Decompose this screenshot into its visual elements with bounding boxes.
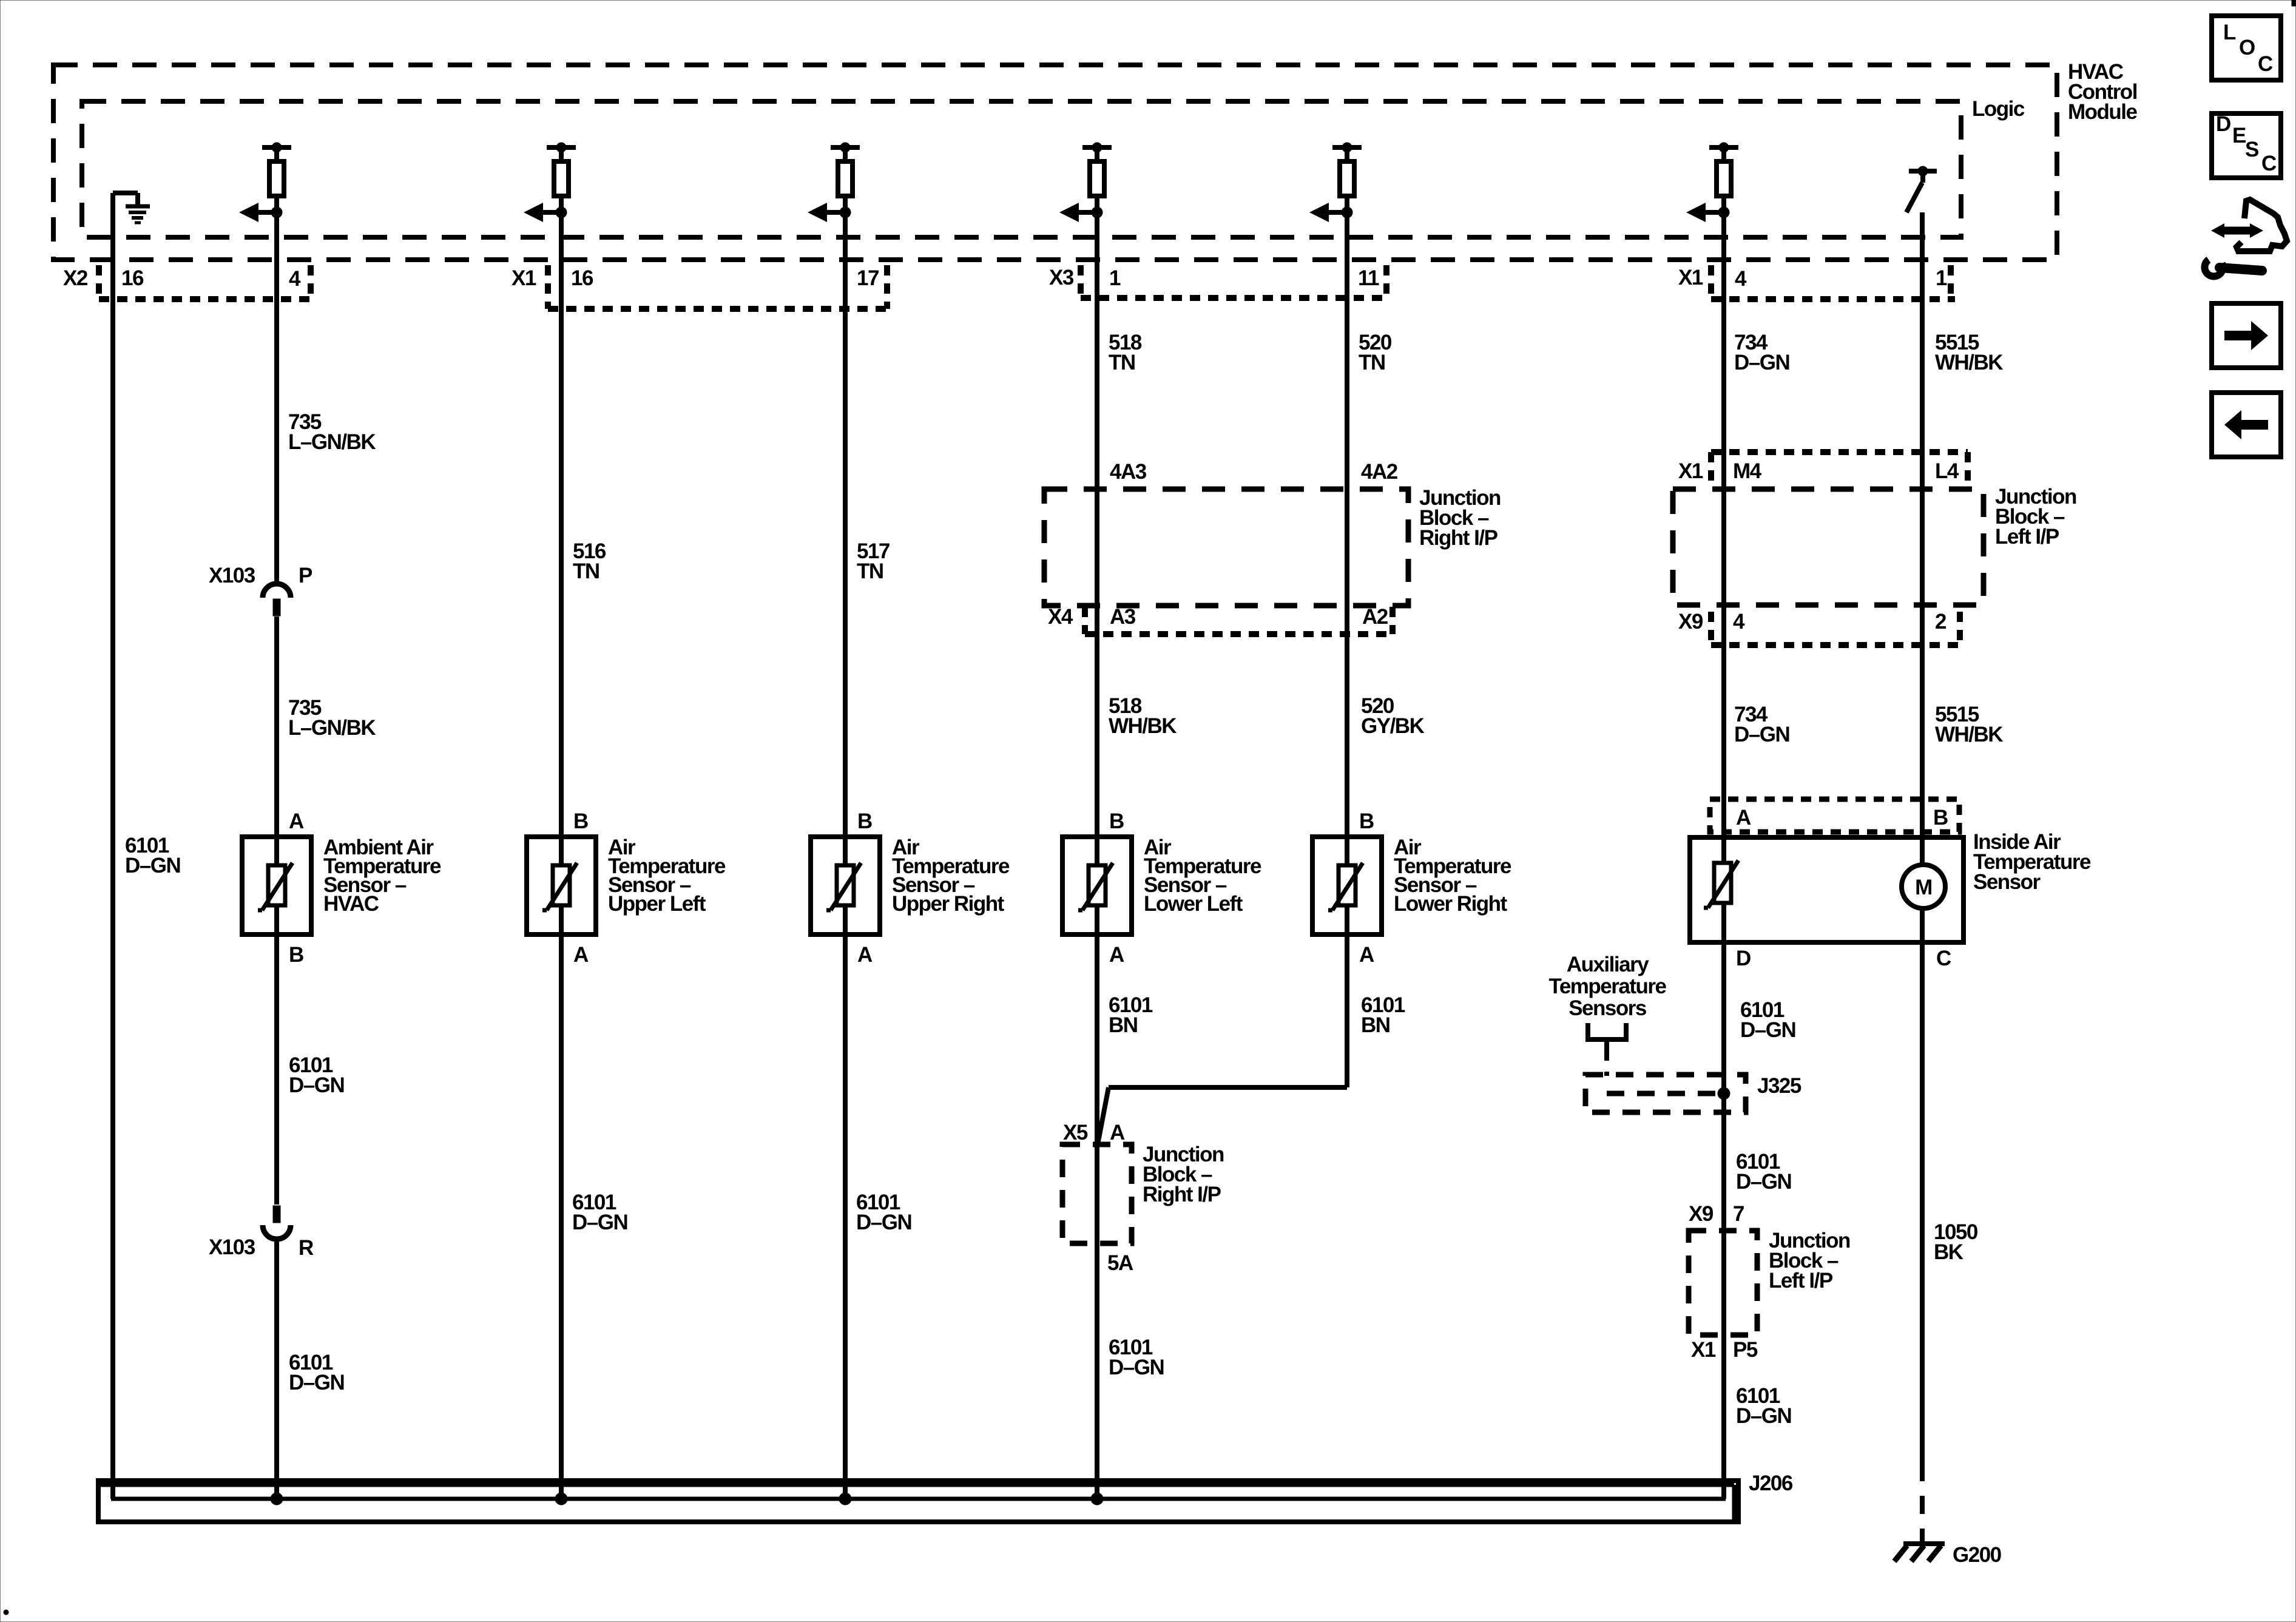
- svg-text:X9: X9: [1678, 610, 1703, 634]
- svg-text:D–GN: D–GN: [1736, 1170, 1791, 1194]
- svg-text:16: 16: [121, 266, 144, 290]
- svg-text:L4: L4: [1935, 459, 1959, 483]
- svg-text:4: 4: [1733, 610, 1745, 634]
- svg-text:X9: X9: [1689, 1202, 1714, 1226]
- svg-text:X4: X4: [1048, 605, 1073, 629]
- junction block left I/P (X9) box: [1689, 1231, 1757, 1335]
- svg-text:X1: X1: [1678, 266, 1703, 289]
- sidebar icon DESC: [2212, 113, 2281, 178]
- switch (module internal, col8): [1909, 169, 1937, 174]
- svg-text:E: E: [2232, 124, 2246, 147]
- svg-text:D–GN: D–GN: [856, 1211, 911, 1234]
- svg-text:D–GN: D–GN: [1734, 723, 1789, 746]
- svg-text:O: O: [2239, 36, 2255, 59]
- sidebar icon forward arrow: [2212, 303, 2281, 368]
- svg-text:X1: X1: [1691, 1338, 1716, 1362]
- svg-text:L–GN/BK: L–GN/BK: [288, 430, 376, 454]
- svg-text:TN: TN: [1109, 351, 1135, 374]
- svg-text:Logic: Logic: [1972, 97, 2025, 121]
- svg-text:7: 7: [1733, 1202, 1744, 1226]
- svg-text:D–GN: D–GN: [572, 1211, 627, 1234]
- junction block left I/P box: [1673, 489, 1984, 605]
- svg-text:Temperature: Temperature: [1549, 975, 1667, 998]
- svg-text:1: 1: [1936, 266, 1947, 290]
- svg-text:A: A: [1109, 943, 1124, 967]
- svg-text:Upper Right: Upper Right: [892, 892, 1005, 916]
- svg-text:X103: X103: [209, 1235, 255, 1259]
- svg-text:C: C: [2258, 52, 2273, 76]
- resistor R3 (module internal): [831, 145, 860, 150]
- page artifact top right: [2292, 0, 2296, 6]
- svg-text:D–GN: D–GN: [1109, 1356, 1164, 1379]
- connector X103 R: [273, 1206, 280, 1223]
- junction dot col4: [839, 1493, 851, 1505]
- svg-text:A: A: [289, 809, 304, 833]
- svg-text:A: A: [857, 943, 873, 967]
- sidebar icon LOC: [2212, 16, 2281, 80]
- wire: dashed 1050 BK to ground: [1920, 1463, 1925, 1544]
- svg-text:11: 11: [1358, 266, 1379, 290]
- wire: circuit 516 / 6101 col3: [559, 212, 564, 1499]
- svg-text:A2: A2: [1362, 605, 1388, 629]
- svg-text:TN: TN: [1359, 351, 1385, 374]
- svg-text:S: S: [2245, 138, 2258, 161]
- svg-text:Right I/P: Right I/P: [1143, 1183, 1221, 1206]
- wire: col6 to col5 joining elbow: [1109, 1085, 1347, 1090]
- signal arrow col5: [1092, 207, 1102, 218]
- svg-text:B: B: [857, 809, 872, 833]
- svg-text:X5: X5: [1063, 1121, 1088, 1144]
- signal arrow col3: [556, 207, 567, 218]
- svg-text:A: A: [1736, 806, 1751, 830]
- splice J325 box: [1585, 1075, 1746, 1112]
- svg-text:2: 2: [1935, 610, 1947, 634]
- svg-text:Lower Left: Lower Left: [1144, 892, 1243, 916]
- wire: circuit 517 / 6101 col4: [843, 212, 848, 1499]
- junction block right I/P (X5) box: [1062, 1144, 1132, 1243]
- svg-text:A3: A3: [1110, 605, 1136, 629]
- svg-text:D–GN: D–GN: [125, 854, 180, 877]
- svg-text:Left I/P: Left I/P: [1995, 525, 2059, 549]
- svg-text:BK: BK: [1934, 1240, 1963, 1264]
- svg-text:Right I/P: Right I/P: [1419, 526, 1498, 550]
- svg-text:HVAC: HVAC: [323, 892, 379, 916]
- svg-text:Module: Module: [2068, 100, 2138, 124]
- svg-text:WH/BK: WH/BK: [1109, 714, 1177, 738]
- svg-text:P5: P5: [1733, 1338, 1758, 1362]
- svg-text:Upper Left: Upper Left: [608, 892, 706, 916]
- svg-text:X3: X3: [1049, 266, 1074, 289]
- svg-text:L: L: [2223, 21, 2236, 44]
- svg-text:Auxiliary: Auxiliary: [1567, 953, 1649, 976]
- connector X1 pin M4: [1711, 449, 1968, 455]
- inside air temperature sensor: [1710, 799, 1959, 832]
- svg-text:5A: 5A: [1107, 1251, 1133, 1275]
- svg-text:C: C: [2261, 152, 2277, 175]
- svg-text:17: 17: [857, 266, 879, 290]
- page artifact bottom left: [4, 1610, 8, 1615]
- svg-text:GY/BK: GY/BK: [1361, 714, 1425, 738]
- svg-text:4A3: 4A3: [1110, 460, 1147, 484]
- svg-text:Left I/P: Left I/P: [1769, 1269, 1833, 1293]
- wire: circuit 520 / 6101 col6: [1345, 212, 1349, 1087]
- wire: circuit 735 / 6101 col2: [274, 212, 279, 583]
- signal arrow col4: [840, 207, 851, 218]
- svg-text:X1: X1: [512, 266, 536, 290]
- svg-text:A: A: [573, 943, 589, 967]
- svg-text:1: 1: [1109, 266, 1121, 290]
- svg-text:X2: X2: [63, 266, 88, 290]
- junction dot col5: [1091, 1493, 1103, 1505]
- svg-text:B: B: [1359, 809, 1374, 833]
- Logic box: [82, 101, 1961, 237]
- resistor R1 (module internal): [262, 145, 291, 150]
- svg-text:4: 4: [1735, 267, 1747, 291]
- wire: ground circuit 6101 col1: [110, 193, 115, 1499]
- svg-text:WH/BK: WH/BK: [1935, 351, 2003, 374]
- ground (HVAC module internal): [113, 191, 138, 195]
- svg-text:A: A: [1359, 943, 1374, 967]
- svg-text:P: P: [299, 564, 312, 587]
- svg-text:R: R: [299, 1236, 314, 1260]
- svg-text:16: 16: [571, 266, 593, 290]
- resistor R2 (module internal): [547, 145, 576, 150]
- splice pack J206: [98, 1481, 1738, 1522]
- svg-text:Sensors: Sensors: [1568, 996, 1647, 1020]
- svg-text:J206: J206: [1749, 1472, 1793, 1495]
- junction dot col2: [271, 1493, 283, 1505]
- svg-text:X1: X1: [1678, 459, 1703, 483]
- resistor R5 (module internal): [1332, 145, 1362, 150]
- svg-text:D–GN: D–GN: [289, 1371, 344, 1394]
- signal arrow col2: [271, 207, 282, 218]
- ground G200: [1903, 1541, 1945, 1546]
- motor M (aspirator): [1902, 865, 1945, 908]
- svg-text:B: B: [1933, 806, 1948, 830]
- signal arrow col7: [1718, 207, 1729, 218]
- svg-text:WH/BK: WH/BK: [1935, 723, 2003, 746]
- svg-text:TN: TN: [573, 559, 599, 583]
- HVAC Control Module outline: [53, 65, 2057, 260]
- svg-text:L–GN/BK: L–GN/BK: [288, 716, 376, 740]
- svg-text:J325: J325: [1757, 1074, 1801, 1098]
- auxiliary dashed lead: [1604, 1046, 1609, 1076]
- svg-text:D–GN: D–GN: [1740, 1018, 1795, 1042]
- wire: circuit 5515 / 1050 col8: [1920, 212, 1925, 1463]
- wire: circuit 734 / 6101 col7: [1721, 212, 1726, 1499]
- svg-text:4: 4: [289, 267, 301, 291]
- svg-text:TN: TN: [857, 559, 883, 583]
- svg-text:D: D: [1736, 947, 1751, 970]
- svg-text:D–GN: D–GN: [1734, 351, 1789, 374]
- auxiliary temperature sensors bracket: [1588, 1023, 1626, 1039]
- svg-text:B: B: [289, 943, 303, 967]
- svg-text:D–GN: D–GN: [1736, 1404, 1791, 1428]
- svg-text:X103: X103: [209, 564, 255, 587]
- svg-text:B: B: [573, 809, 588, 833]
- svg-text:BN: BN: [1361, 1013, 1390, 1037]
- splice J325 dot: [1718, 1087, 1730, 1100]
- svg-text:BN: BN: [1109, 1013, 1138, 1037]
- junction dot col3: [555, 1493, 567, 1505]
- svg-text:G200: G200: [1953, 1543, 2002, 1567]
- resistor R6 (module internal): [1709, 145, 1738, 150]
- sidebar icon back arrow: [2212, 393, 2281, 457]
- svg-text:Lower Right: Lower Right: [1394, 892, 1508, 916]
- wire: circuit 518 / 6101 col5: [1095, 212, 1099, 1499]
- svg-text:D: D: [2216, 112, 2230, 136]
- svg-text:Sensor: Sensor: [1973, 870, 2041, 894]
- signal arrow col6: [1342, 207, 1352, 218]
- svg-text:A: A: [1110, 1121, 1125, 1144]
- svg-text:C: C: [1936, 947, 1951, 970]
- svg-text:M: M: [1915, 876, 1932, 899]
- svg-text:4A2: 4A2: [1361, 460, 1398, 484]
- junction block right I/P box: [1044, 489, 1408, 606]
- svg-text:D–GN: D–GN: [289, 1073, 344, 1097]
- resistor R4 (module internal): [1082, 145, 1112, 150]
- sidebar icon harness/wrench: [2237, 200, 2287, 251]
- svg-text:B: B: [1109, 809, 1124, 833]
- svg-text:M4: M4: [1733, 459, 1762, 483]
